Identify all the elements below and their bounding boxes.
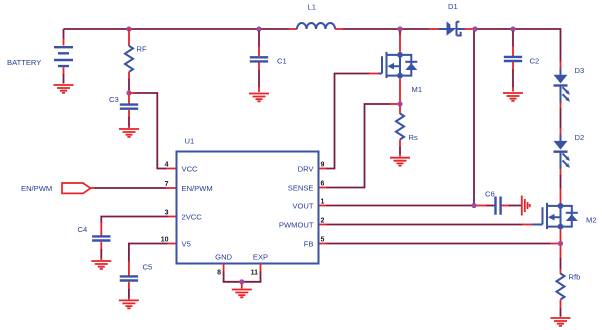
- svg-text:Rs: Rs: [409, 133, 418, 142]
- svg-text:2: 2: [321, 218, 325, 225]
- svg-text:EXP: EXP: [253, 253, 268, 262]
- wire from D1 junction down to VOUT wire: [473, 31, 475, 204]
- ground sideways right of C6: [522, 196, 530, 216]
- svg-text:EN/PWM: EN/PWM: [182, 184, 213, 193]
- capacitor C3: [120, 95, 138, 128]
- wire M1 drain lead: [399, 31, 401, 35]
- node junction top rail / M1 drain: [397, 26, 402, 31]
- svg-text:9: 9: [321, 162, 325, 169]
- svg-text:D3: D3: [575, 66, 585, 75]
- capacitor C4: [92, 236, 110, 260]
- svg-text:C6: C6: [485, 190, 495, 199]
- svg-text:C3: C3: [109, 95, 119, 104]
- svg-text:2VCC: 2VCC: [182, 213, 203, 222]
- node junction VOUT / D1 branch: [471, 203, 476, 208]
- ground below Rs: [390, 158, 410, 166]
- diode D1 schottky: [429, 22, 474, 36]
- op-amp U1 IC body: [177, 152, 319, 264]
- node junction top rail / RF: [126, 26, 131, 31]
- wire top rail from L1 to D1: [343, 28, 429, 30]
- svg-text:VCC: VCC: [182, 165, 199, 174]
- svg-text:C5: C5: [143, 263, 153, 272]
- ground below C5: [119, 300, 139, 308]
- svg-text:3: 3: [165, 210, 169, 217]
- wire joining GND and EXP: [223, 281, 262, 283]
- ground below C3: [119, 129, 139, 137]
- wire between D3 and D2: [560, 103, 562, 136]
- port EN/PWM: [62, 183, 91, 193]
- svg-text:6: 6: [321, 181, 325, 188]
- wire V5 pin10 to C5: [129, 244, 177, 277]
- ground below C2: [503, 93, 523, 101]
- resistor Rs: [396, 106, 404, 157]
- svg-text:V5: V5: [182, 240, 191, 249]
- inductor L1: [289, 23, 343, 29]
- svg-text:RF: RF: [137, 45, 147, 54]
- resistor Rfb: [557, 246, 565, 318]
- svg-text:BATTERY: BATTERY: [7, 58, 41, 67]
- wire top rail from battery to L1: [64, 28, 290, 30]
- svg-text:1: 1: [321, 199, 325, 206]
- svg-text:PWMOUT: PWMOUT: [279, 221, 314, 230]
- node junction D1 cathode / VOUT branch: [472, 26, 477, 31]
- svg-text:SENSE: SENSE: [288, 184, 314, 193]
- svg-text:5: 5: [321, 237, 325, 244]
- capacitor C5: [120, 276, 138, 299]
- wire right column above D3: [560, 61, 562, 69]
- wire GND pin8 down: [223, 264, 225, 282]
- ground below Rfb: [551, 318, 571, 326]
- svg-text:7: 7: [165, 181, 169, 188]
- svg-text:C1: C1: [277, 57, 287, 66]
- wire FB pin5 to M2 source junction: [319, 243, 559, 245]
- svg-text:DRV: DRV: [298, 165, 315, 174]
- wire top rail from D1 to top-right corner, down to D3: [473, 29, 561, 62]
- node junction GND/EXP: [239, 279, 244, 284]
- wire PWMOUT pin2 to M2 gate: [319, 224, 539, 226]
- wire M2 source to FB junction: [560, 230, 562, 242]
- diode D3 LED: [554, 69, 571, 104]
- svg-text:M1: M1: [412, 85, 423, 94]
- svg-text:U1: U1: [185, 137, 195, 146]
- svg-text:Rfb: Rfb: [569, 273, 581, 282]
- wire junction to ground: [241, 284, 243, 289]
- transistor M2: [539, 203, 578, 230]
- ground below GND/EXP: [232, 290, 252, 298]
- node junction top rail / C2: [510, 26, 515, 31]
- svg-text:D1: D1: [448, 2, 458, 11]
- wire VOUT pin1 to C6: [319, 205, 474, 207]
- node junction top rail / C1: [256, 26, 261, 31]
- svg-text:GND: GND: [215, 253, 232, 262]
- svg-text:EN/PWM: EN/PWM: [21, 184, 52, 193]
- svg-text:C4: C4: [78, 225, 88, 234]
- svg-text:10: 10: [161, 237, 169, 244]
- transistor M1: [378, 52, 417, 79]
- svg-text:8: 8: [217, 270, 221, 277]
- svg-text:M2: M2: [586, 216, 597, 225]
- diode D2 LED: [554, 135, 571, 170]
- node junction RF / C3 / VCC wire: [126, 90, 131, 95]
- wire DRV pin9 to M1 gate: [319, 74, 379, 169]
- wire EXP pin11 down: [260, 264, 262, 282]
- svg-text:FB: FB: [304, 240, 314, 249]
- ground below C1: [249, 94, 269, 102]
- svg-text:L1: L1: [308, 3, 316, 12]
- wire VCC from C3 junction to pin 4: [133, 93, 167, 169]
- battery BATTERY: [54, 29, 73, 84]
- wire EN/PWM port to pin 7: [91, 187, 177, 189]
- svg-text:11: 11: [251, 270, 259, 277]
- capacitor C2: [504, 31, 522, 92]
- capacitor C1: [250, 31, 268, 92]
- wire 2VCC pin3 to C4: [101, 217, 176, 237]
- node junction M1 source / Rs / SENSE: [397, 101, 402, 106]
- svg-text:D2: D2: [575, 133, 585, 142]
- resistor RF: [125, 29, 133, 92]
- wire D2 cathode to M2 drain: [560, 169, 562, 204]
- svg-text:4: 4: [165, 162, 169, 169]
- node junction M2 source / FB / Rfb: [558, 241, 563, 246]
- ground below battery: [54, 85, 74, 93]
- capacitor C6: [477, 197, 522, 215]
- svg-text:VOUT: VOUT: [292, 202, 313, 211]
- wire SENSE pin6 to source junction: [319, 104, 398, 188]
- ground below C4: [91, 261, 111, 269]
- svg-text:C2: C2: [530, 57, 540, 66]
- wire M1 source to Rs junction: [399, 79, 401, 103]
